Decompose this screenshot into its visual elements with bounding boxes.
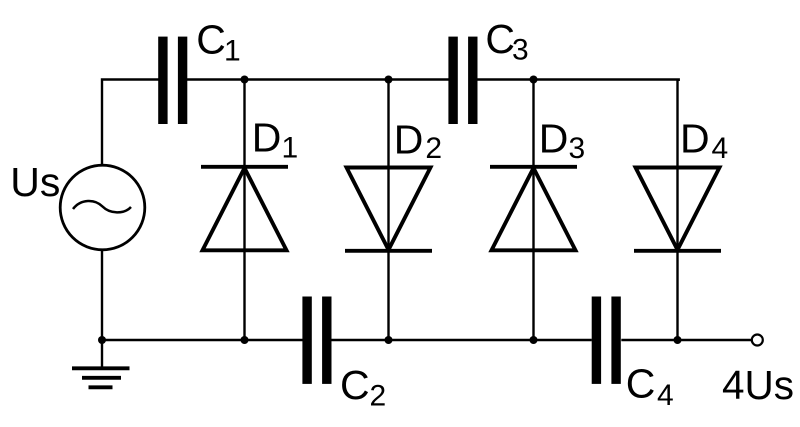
capacitor C1 <box>158 37 187 124</box>
wire source top to C1 <box>102 80 159 166</box>
label C1 <box>196 17 240 68</box>
label D2 <box>394 116 442 165</box>
wire D3 column <box>532 80 534 341</box>
junction dot bottom D2 <box>385 336 393 344</box>
svg-text:4: 4 <box>657 379 674 412</box>
wire bottom rail middle segment <box>332 339 592 341</box>
label Us <box>10 159 60 205</box>
wire top rail C1 to C3 <box>187 78 449 80</box>
ground bar 1 <box>72 366 130 370</box>
svg-text:C: C <box>626 361 656 407</box>
label D4 <box>680 116 728 165</box>
wire D1 column <box>243 80 245 341</box>
junction dot bottom D3 <box>530 336 538 344</box>
wire source bottom to rail <box>101 250 103 341</box>
capacitor C3 <box>448 37 477 124</box>
svg-text:1: 1 <box>224 35 241 68</box>
diode D3 (cathode up) <box>490 167 577 251</box>
ground bar 3 <box>89 385 113 389</box>
junction dot top D2 <box>385 76 393 84</box>
label C4 <box>626 361 674 413</box>
svg-text:C: C <box>196 17 226 63</box>
svg-text:3: 3 <box>512 34 529 67</box>
svg-text:2: 2 <box>370 379 387 412</box>
junction dot top D1 <box>241 76 249 84</box>
output terminal 4Us <box>752 335 763 346</box>
svg-text:D: D <box>539 116 569 162</box>
junction dot top D3 <box>530 76 538 84</box>
label D3 <box>539 116 585 165</box>
label C3 <box>485 16 528 67</box>
label D1 <box>252 115 298 165</box>
svg-text:D: D <box>680 116 710 162</box>
diode D4 (cathode down) <box>634 168 721 251</box>
capacitor C2 <box>302 297 331 384</box>
svg-text:2: 2 <box>425 132 442 165</box>
junction dot bottom source/ground <box>98 336 106 344</box>
label 4Us <box>722 362 794 408</box>
svg-text:1: 1 <box>282 132 299 165</box>
svg-text:4Us: 4Us <box>722 362 794 408</box>
wire D2 column <box>387 80 389 341</box>
wire D4 column <box>676 80 678 341</box>
sine symbol inside source <box>73 201 131 212</box>
junction dot bottom D1 <box>241 336 249 344</box>
svg-text:C: C <box>340 362 370 408</box>
wire bottom rail right segment to output <box>621 339 751 341</box>
ground bar 2 <box>82 376 121 380</box>
svg-text:D: D <box>394 116 424 162</box>
svg-text:C: C <box>485 16 515 62</box>
voltage source US circle <box>60 165 145 250</box>
wire top rail C3 to D4 corner <box>477 80 678 82</box>
capacitor C4 <box>592 297 621 384</box>
diode D1 (cathode up) <box>201 167 288 251</box>
svg-text:Us: Us <box>10 159 60 205</box>
svg-text:4: 4 <box>712 132 729 165</box>
ground stub <box>101 340 103 368</box>
svg-text:D: D <box>252 115 282 161</box>
label C2 <box>340 362 386 412</box>
junction dot bottom D4 <box>674 336 682 344</box>
diode D2 (cathode down) <box>345 168 432 251</box>
wire bottom rail left segment <box>102 339 303 341</box>
svg-text:3: 3 <box>569 132 586 165</box>
